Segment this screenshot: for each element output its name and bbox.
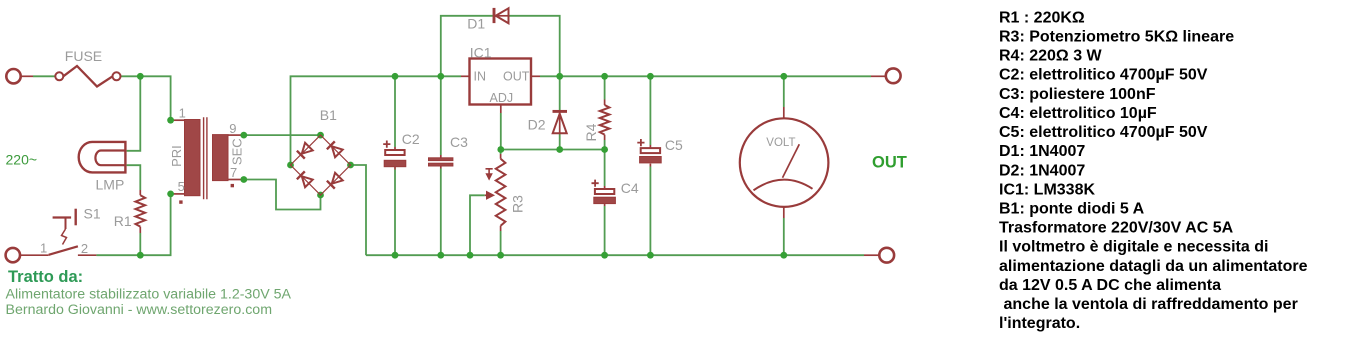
- wire D1 loop: [441, 16, 493, 77]
- wire R4 leads: [604, 76, 606, 99]
- wire transformer pin9 lead: [228, 134, 244, 136]
- regulator IC1 box: [470, 59, 532, 105]
- wire OUT rail: [540, 75, 871, 77]
- wire lamp bottom to R1: [127, 165, 141, 190]
- wire bridge plus to IN rail: [291, 76, 462, 165]
- bridge diode top-left: [297, 143, 313, 159]
- svg-text:SEC: SEC: [230, 138, 245, 165]
- svg-text:OUT: OUT: [503, 70, 530, 84]
- wire terminal lead top-left: [21, 75, 33, 77]
- svg-text:FUSE: FUSE: [65, 48, 102, 64]
- pin 5 transformer: [167, 191, 174, 198]
- wire transformer pin5 lead: [171, 193, 185, 195]
- junction voltmeter/OUT rail: [780, 73, 787, 80]
- svg-text:C5: elettrolitico 4700µF 50V: C5: elettrolitico 4700µF 50V: [999, 124, 1208, 141]
- wire pin7 to bridge bottom: [244, 180, 321, 210]
- diode D2: [553, 111, 568, 133]
- junction R4-C4/ADJ line: [601, 146, 608, 153]
- terminal pad top-left: [6, 69, 20, 83]
- transformer SEC winding: [213, 135, 229, 181]
- svg-text:S1: S1: [84, 205, 101, 221]
- wire C2 plate stubs: [394, 147, 396, 150]
- pin 1 transformer: [167, 117, 174, 124]
- junction C3/ground rail: [437, 252, 444, 259]
- lamp LMP: [79, 142, 126, 173]
- junction C5/OUT rail: [647, 73, 654, 80]
- svg-text:R1 : 220KΩ: R1 : 220KΩ: [999, 9, 1085, 26]
- svg-text:D2: 1N4007: D2: 1N4007: [999, 162, 1085, 179]
- resistor R1: [136, 195, 146, 226]
- wire R3 top lead: [500, 150, 502, 155]
- wire C3 leads: [440, 76, 442, 155]
- wire C3 plate stubs: [440, 155, 442, 158]
- switch S1: [49, 209, 78, 255]
- svg-text:5: 5: [178, 179, 185, 194]
- wire terminal lead bottom-left to switch pin1: [20, 254, 49, 256]
- wire terminal lead top-right: [871, 75, 886, 77]
- svg-text:PRI: PRI: [169, 145, 184, 167]
- wire fuse to transformer pin1 corner: [121, 76, 171, 120]
- junction R4/OUT rail: [601, 73, 608, 80]
- wire top-left terminal to fuse: [33, 75, 55, 77]
- junction R3 wiper/ground rail: [467, 252, 474, 259]
- wire IC1 IN stub: [461, 75, 470, 77]
- transformer polarity dot pin7: [231, 184, 234, 187]
- wire IC1 OUT stub: [531, 75, 540, 77]
- svg-text:1: 1: [179, 106, 186, 121]
- node bridge plus: [287, 162, 294, 169]
- junction C2/+rail: [392, 73, 399, 80]
- wire switch pin2 to R1/pin5 rail: [96, 194, 170, 255]
- svg-text:7: 7: [230, 165, 237, 180]
- svg-text:B1: ponte diodi 5 A: B1: ponte diodi 5 A: [999, 201, 1145, 218]
- junction D1-D2/OUT rail: [556, 73, 563, 80]
- svg-text:C3: C3: [450, 134, 468, 150]
- wire R4 lead stubs: [604, 100, 606, 141]
- node bridge AC bottom: [317, 192, 324, 199]
- pin 9 transformer: [240, 132, 247, 139]
- svg-text:da 12V 0.5 A DC che alimenta: da 12V 0.5 A DC che alimenta: [999, 277, 1221, 294]
- wire transformer pin7 lead: [228, 179, 244, 181]
- svg-text:Bernardo Giovanni - www.settor: Bernardo Giovanni - www.settorezero.com: [6, 302, 273, 318]
- pin 7 transformer: [240, 176, 247, 183]
- wire C4 plate stubs: [604, 186, 606, 189]
- svg-text:D2: D2: [528, 116, 546, 132]
- svg-text:ADJ: ADJ: [490, 91, 514, 105]
- bridge diode bottom-left: [297, 171, 313, 187]
- junction D2/ADJ line: [556, 146, 563, 153]
- node ADJ: [497, 146, 504, 153]
- diode D1: [494, 8, 509, 23]
- svg-text:C4: elettrolitico 10µF: C4: elettrolitico 10µF: [999, 105, 1157, 122]
- svg-text:anche la ventola di raffreddam: anche la ventola di raffreddamento per: [1004, 296, 1298, 313]
- bridge diode bottom-right: [327, 173, 343, 189]
- svg-text:C2: C2: [402, 131, 420, 147]
- svg-text:R4: R4: [583, 123, 599, 141]
- svg-text:9: 9: [229, 121, 236, 136]
- svg-text:OUT: OUT: [872, 153, 907, 171]
- wire R1 lead stubs: [139, 190, 141, 233]
- terminal pad bottom-right: [879, 248, 894, 263]
- capacitor C5: [637, 139, 661, 163]
- junction C4/ground rail: [601, 252, 608, 259]
- wire R3 bottom lead: [500, 231, 502, 255]
- transformer polarity dot pin5: [179, 200, 182, 203]
- node bridge minus: [347, 162, 354, 169]
- junction R1/bottom rail: [137, 252, 144, 259]
- svg-text:2: 2: [81, 241, 88, 256]
- terminal pad top-right: [886, 68, 901, 83]
- svg-text:C3: poliestere 100nF: C3: poliestere 100nF: [999, 86, 1156, 103]
- component list text: [999, 9, 1308, 332]
- wire IC1 ADJ stub: [500, 105, 502, 114]
- terminal pad bottom-left: [6, 248, 20, 262]
- junction R3/ground rail: [497, 252, 504, 259]
- svg-text:IN: IN: [474, 70, 487, 84]
- transformer PRI winding: [185, 120, 201, 196]
- wire R3 wiper: [470, 195, 485, 255]
- svg-text:D1: 1N4007: D1: 1N4007: [999, 143, 1085, 160]
- potentiometer R3: [496, 159, 506, 226]
- svg-text:220~: 220~: [6, 151, 38, 167]
- wire ADJ node line: [501, 113, 605, 150]
- fuse FUSE: [55, 66, 120, 87]
- svg-text:R3: Potenziometro 5KΩ lineare: R3: Potenziometro 5KΩ lineare: [999, 28, 1234, 45]
- svg-text:Alimentatore stabilizzato vari: Alimentatore stabilizzato variabile 1.2-…: [6, 287, 292, 303]
- svg-text:R3: R3: [509, 195, 525, 213]
- capacitor C2: [383, 141, 406, 167]
- voltmeter VOLT: [740, 118, 829, 207]
- wire C2 leads: [394, 76, 396, 147]
- wire R1 bottom to rail: [139, 233, 141, 255]
- svg-text:Il voltmetro è digitale e nece: Il voltmetro è digitale e necessita di: [999, 239, 1268, 256]
- svg-text:alimentazione datagli da un al: alimentazione datagli da un alimentatore: [999, 258, 1308, 275]
- wire ground rail: [366, 254, 864, 256]
- potentiometer R3 adjust mark: [486, 169, 493, 180]
- junction lamp/top rail: [137, 73, 144, 80]
- svg-text:1: 1: [40, 241, 47, 256]
- node bridge AC top: [317, 132, 324, 139]
- svg-text:C4: C4: [621, 180, 639, 196]
- wire C4 leads: [604, 150, 606, 187]
- wire terminal lead bottom-right: [864, 254, 879, 256]
- svg-text:R4: 220Ω 3 W: R4: 220Ω 3 W: [999, 48, 1103, 65]
- wire D2 leads: [559, 76, 561, 110]
- capacitor C4: [592, 180, 616, 204]
- wire C5 leads: [649, 76, 651, 145]
- junction C2/ground rail: [392, 252, 399, 259]
- junction C5/ground rail: [647, 252, 654, 259]
- svg-text:l'integrato.: l'integrato.: [999, 315, 1080, 332]
- svg-text:D1: D1: [467, 16, 485, 32]
- svg-text:IC1: LM338K: IC1: LM338K: [999, 181, 1095, 198]
- wire switch pin2 lead: [78, 254, 97, 256]
- svg-text:R1: R1: [114, 213, 132, 229]
- junction voltmeter/ground rail: [780, 252, 787, 259]
- wire C5 plate stubs: [649, 145, 651, 148]
- wire pin9 to bridge top: [244, 134, 321, 136]
- svg-text:Tratto da:: Tratto da:: [8, 268, 83, 286]
- svg-text:LMP: LMP: [96, 176, 125, 192]
- wire transformer pin1 lead: [171, 119, 185, 121]
- junction C3-D1/+rail: [437, 73, 444, 80]
- svg-text:Trasformatore 220V/30V AC 5A: Trasformatore 220V/30V AC 5A: [999, 220, 1234, 237]
- wire lamp top to top rail: [127, 76, 141, 151]
- wire R3 lead stubs: [500, 154, 502, 231]
- capacitor C3: [429, 158, 453, 166]
- svg-text:VOLT: VOLT: [766, 137, 795, 149]
- wire bridge minus to ground rail: [351, 165, 367, 255]
- bridge diode top-right: [327, 141, 343, 157]
- svg-text:C2: elettrolitico 4700µF 50V: C2: elettrolitico 4700µF 50V: [999, 67, 1208, 84]
- resistor R4: [600, 105, 610, 135]
- bridge B1 edge wires: [291, 135, 351, 195]
- wire meter lead stubs: [783, 107, 785, 118]
- wire voltmeter leads: [783, 76, 785, 107]
- svg-text:C5: C5: [665, 137, 683, 153]
- transformer core: [204, 117, 207, 199]
- svg-text:B1: B1: [320, 107, 337, 123]
- potentiometer R3 wiper arrow: [485, 192, 494, 200]
- svg-text:IC1: IC1: [470, 45, 492, 61]
